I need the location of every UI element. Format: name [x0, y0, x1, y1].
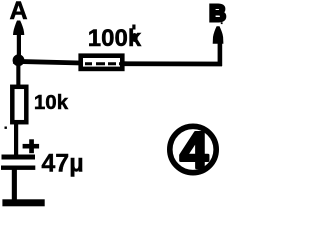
figure number 4: [180, 121, 209, 178]
resistor R1 value label 100k: [88, 25, 142, 53]
svg-text:B: B: [209, 0, 226, 26]
resistor R1 100k body: [81, 56, 123, 69]
wire vertical corner up to B arrow: [218, 42, 223, 66]
figure number circle: [170, 126, 216, 172]
wire junction down to resistor R2: [16, 64, 20, 87]
node B label: [209, 0, 226, 26]
capacitor C1 bottom plate: [1, 166, 35, 170]
ink speck left of wire: [5, 127, 7, 129]
capacitor C1 plus polarity sign: [23, 139, 39, 153]
resistor R2 value label 10k: [34, 91, 69, 114]
wire resistor R2 to capacitor C1: [14, 123, 18, 156]
capacitor C1 value label 47u: [41, 150, 83, 178]
arrow at node A: [13, 21, 24, 36]
wire horizontal left segment junction to resistor R1: [13, 61, 81, 63]
junction dot node A: [13, 54, 25, 66]
node A label: [9, 0, 27, 25]
bottom terminal bar: [2, 199, 44, 206]
wire A arrow shaft to junction: [17, 33, 21, 59]
svg-text:10k: 10k: [34, 91, 69, 114]
ink speck above B arrow: [221, 22, 223, 24]
svg-text:47µ: 47µ: [41, 150, 83, 178]
wire horizontal right segment resistor R1 to corner: [122, 61, 222, 66]
arrow at node B: [213, 26, 224, 44]
svg-text:4: 4: [180, 121, 209, 178]
wire capacitor C1 to bottom terminal: [12, 169, 17, 201]
capacitor C1 top plate: [2, 155, 36, 160]
resistor R2 10k body: [12, 87, 26, 122]
